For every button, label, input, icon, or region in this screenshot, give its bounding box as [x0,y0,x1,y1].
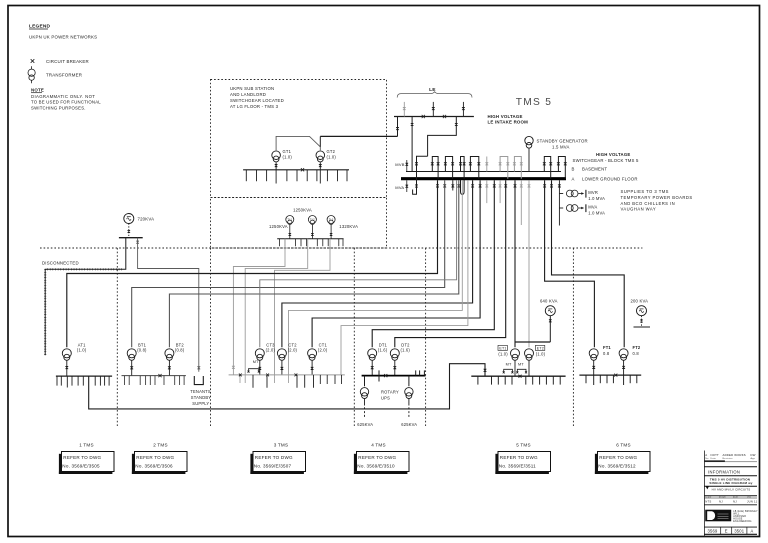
svg-text:TO BE USED FOR FUNCTIONAL: TO BE USED FOR FUNCTIONAL [31,100,101,105]
svg-text:4 TMS: 4 TMS [371,443,385,448]
svg-text:REFER TO DWG: REFER TO DWG [63,455,101,460]
svg-text:DIAGRAMMATIC ONLY. NOT: DIAGRAMMATIC ONLY. NOT [31,94,95,99]
breaker on bus 4 [384,374,387,377]
svg-text:AT LG FLOOR - TMS 3: AT LG FLOOR - TMS 3 [230,104,279,109]
LE stub 2 [432,102,435,117]
bus 3 TMS gray [229,375,345,388]
svg-text:MVA: MVA [588,205,597,210]
spare stub gray 500.1 [499,180,501,203]
label MT MT section5 [503,362,527,373]
LE stub 3 [462,102,465,117]
wire feeder to BT1 [132,180,445,347]
svg-text:TL1: TL1 [287,219,292,222]
transformer CT3 [255,343,275,361]
svg-text:A: A [751,528,754,533]
transformer ET2 [525,349,534,376]
svg-text:date: date [733,495,739,498]
zone divider 5/6 [572,248,574,428]
svg-text:(1.0): (1.0) [77,348,87,353]
wire gray feeder to CT3 [260,180,457,347]
spare stub gray 521.3 [520,180,522,225]
breaker loop 3 [459,157,466,179]
transformer FT1 [589,345,611,360]
wire feeder to DT1 [372,180,494,347]
svg-text:(1.6): (1.6) [401,348,411,353]
transformer BT2 [165,343,185,361]
breaker loop 6 [513,157,523,179]
wire tie bus1 to bus5 [89,364,487,409]
bus 6 TMS [579,375,641,385]
refer box 3 TMS [250,452,305,475]
svg-text:NOTE: NOTE [31,88,44,93]
generator 200KVA [631,298,651,327]
svg-text:drawn: drawn [719,495,727,498]
note supplies to 3 TMS [621,189,693,211]
svg-text:MT: MT [506,362,512,366]
svg-text:No. 3569/E/3511: No. 3569/E/3511 [499,464,536,469]
label ET2 [535,345,545,356]
label 1320KVA right [339,224,358,229]
breaker DT1 [371,361,374,376]
svg-text:SINGLE LINE DIAGRAM wy: SINGLE LINE DIAGRAM wy [709,481,752,485]
svg-text:1250KVA: 1250KVA [269,224,288,229]
bus 1250KVA [277,239,343,246]
breaker on bus 5 [519,375,522,378]
breakers TL1 TL2 TL3 [288,225,332,239]
transformer TL3 [327,216,335,225]
wire LE drop to board [428,117,458,157]
breaker on bus 2 [158,374,161,377]
title block information [704,467,757,476]
svg-text:FT1: FT1 [603,345,611,350]
breaker loop 5 [499,157,510,179]
LE stub 1 [403,102,406,117]
svg-text:1.5 MVA: 1.5 MVA [552,144,570,149]
svg-text:NOTT: NOTT [711,453,720,457]
svg-text:scale: scale [705,496,712,498]
svg-text:TEMPORARY POWER BOARDS: TEMPORARY POWER BOARDS [621,195,693,200]
svg-text:NJ: NJ [733,500,737,504]
wire feeder to ET1 [514,180,516,347]
svg-text:VAUGHAN WAY: VAUGHAN WAY [621,207,657,212]
title block logo [705,510,758,523]
wire MVR tap [559,180,563,225]
wire feeder to BT2 [169,180,458,347]
svg-text:DISCONNECTED: DISCONNECTED [42,260,79,265]
breaker loop 4 [469,157,480,179]
transformer MVR [566,190,605,201]
svg-text:No. 3569/E/3505: No. 3569/E/3505 [62,464,100,469]
svg-text:LE INTAKE ROOM: LE INTAKE ROOM [488,119,529,124]
svg-text:NJ: NJ [719,500,723,504]
refer box 5 TMS [495,452,550,475]
svg-text:625KVA: 625KVA [401,422,417,427]
svg-text:TL3: TL3 [329,219,334,222]
transformer CT1 [308,343,328,361]
spare stub 452.8 [452,180,454,190]
wire gen to tenants supply [136,238,200,372]
label HV LE intake room [488,114,529,125]
svg-text:(1.0): (1.0) [283,155,293,160]
svg-text:3501: 3501 [734,528,744,533]
svg-text:MVB: MVB [395,162,404,167]
breaker stub gray [485,157,488,172]
svg-text:(1.0): (1.0) [327,155,337,160]
loop3 lower pair [461,180,465,194]
svg-text:MVR: MVR [588,190,598,195]
svg-text:(1.6): (1.6) [378,348,388,353]
svg-text:ET2: ET2 [537,346,544,350]
breaker CT1 [311,361,314,375]
wire LE drop to bus B [411,117,414,172]
svg-text:SUPPLY: SUPPLY [192,401,209,406]
svg-text:FT2: FT2 [633,345,641,350]
label MVA [395,180,408,192]
svg-text:ROTARY: ROTARY [381,390,399,395]
UPS transformer right [405,376,413,418]
svg-text:MT: MT [518,362,524,366]
svg-text:1250KVA: 1250KVA [293,208,312,213]
transformer GT1 [272,149,293,162]
svg-text:REFER TO DWG: REFER TO DWG [358,455,396,460]
svg-text:A: A [572,176,575,181]
legend transformer symbol [28,66,82,83]
svg-text:(2.0): (2.0) [318,348,328,353]
bus 4 TMS [362,370,426,381]
svg-text:(2.0): (2.0) [266,348,276,353]
wire feeder to CT2 [282,180,473,347]
svg-text:TENANTS: TENANTS [190,389,211,394]
svg-text:CIRCUIT BREAKER: CIRCUIT BREAKER [46,59,89,64]
svg-text:AND LANDLORD: AND LANDLORD [230,92,266,97]
transformer DT2 [390,343,410,361]
svg-text:(0.8): (0.8) [137,348,147,353]
transformer TL2 [308,216,316,225]
transformer BT1 [127,343,147,361]
title block revision row [704,453,757,462]
svg-text:JUN 11: JUN 11 [747,500,758,504]
svg-text:ADDED WORKS: ADDED WORKS [723,453,746,457]
node LE label [429,87,436,93]
generator 640KVA [515,298,558,342]
bus LE intake [394,116,474,118]
svg-text:TRANSFORMER: TRANSFORMER [46,73,82,78]
breaker CT2 [280,361,283,375]
wire feeder to FT1 [545,180,595,347]
svg-text:UKPN UK POWER NETWORKS: UKPN UK POWER NETWORKS [29,35,97,40]
wire feeder to AT1 [67,180,438,347]
svg-text:ENGINEERING: ENGINEERING [733,521,751,523]
LE brace [397,92,472,98]
title block drawing title [704,478,757,492]
svg-text:REFER TO DWG: REFER TO DWG [500,455,538,460]
bus 2 TMS [122,376,186,385]
svg-text:App: App [751,457,756,460]
svg-text:1320KVA: 1320KVA [339,224,358,229]
wire feeder to ET2 gray [528,180,530,347]
breaker on bus 6 [614,374,617,377]
transformer DT1 [368,343,388,361]
label A lower ground floor [572,176,638,181]
svg-text:GT1: GT1 [283,149,292,154]
svg-text:TL2: TL2 [310,219,315,222]
svg-text:A: A [705,453,707,457]
feeder breakers below MVA [436,185,561,187]
svg-text:STANDBY GENERATOR: STANDBY GENERATOR [537,139,588,144]
node gen bar [119,237,143,239]
svg-text:SUPPLIES TO 3 TMS: SUPPLIES TO 3 TMS [621,189,669,194]
bus 1 TMS [56,376,112,387]
legend title [29,24,51,30]
svg-text:625KVA: 625KVA [357,422,373,427]
svg-text:(0.8): (0.8) [175,348,185,353]
generator standby 1.5MVA [525,136,588,149]
bus GT substation [243,170,349,184]
label rotary ups [381,390,399,401]
svg-text:(1.0): (1.0) [498,351,508,356]
svg-text:TMS 5: TMS 5 [516,97,553,108]
wire board left hook [413,156,428,194]
breaker loop 8 [557,157,567,179]
svg-text:No. 3569/E/3510: No. 3569/E/3510 [357,464,395,469]
zone divider 1/2 [116,248,118,428]
svg-text:3569: 3569 [708,528,718,533]
breaker FT1 [592,361,595,376]
svg-text:BASEMENT: BASEMENT [582,166,607,171]
svg-text:REFER TO DWG: REFER TO DWG [255,455,293,460]
svg-text:(1.0): (1.0) [536,351,546,356]
legend text UKPN [29,35,97,40]
transformer FT2 [619,345,641,360]
wire feeder to DT2 [395,180,506,347]
svg-text:No. 3569/E/3507: No. 3569/E/3507 [254,464,292,469]
wire feeder to CT1 [312,180,480,347]
svg-text:MVA: MVA [395,185,404,190]
svg-text:1 TMS: 1 TMS [79,443,93,448]
svg-text:3 TMS: 3 TMS [274,443,288,448]
zone divider 3/4 [353,248,355,428]
svg-text:AND BCO CHILLERS IN: AND BCO CHILLERS IN [621,201,676,206]
svg-text:SWITCHGEAR LOCATED: SWITCHGEAR LOCATED [230,98,284,103]
svg-text:6 TMS: 6 TMS [616,443,630,448]
svg-text:HV AND MV/LV CIRCUITS: HV AND MV/LV CIRCUITS [712,488,751,492]
label 1250KVA left [269,224,288,229]
svg-text:No. 3569/E/3512: No. 3569/E/3512 [598,464,636,469]
generator 720KVA [124,214,154,224]
svg-text:ET1: ET1 [499,346,506,350]
transformer AT1 [62,343,86,361]
svg-text:No: No [705,458,709,460]
svg-text:HIGH VOLTAGE: HIGH VOLTAGE [596,152,630,157]
label HV switchgear block TMS 5 [573,152,639,163]
refer box 2 TMS [132,452,187,475]
svg-text:SWITCHGEAR - BLOCK TMS 5: SWITCHGEAR - BLOCK TMS 5 [573,158,639,163]
wire gen to bar [127,224,130,238]
zone divider 2/3 [210,248,212,428]
svg-text:Date: Date [711,457,717,460]
title block scale row [704,495,757,504]
transformer CT2 [277,343,297,361]
svg-text:LOWER GROUND FLOOR: LOWER GROUND FLOOR [582,176,638,181]
spare stub gray 486.8 [486,180,488,203]
wire standby gen to bus [528,148,530,171]
refer box 6 TMS [595,452,650,475]
svg-text:2 TMS: 2 TMS [153,443,167,448]
svg-text:(2.0): (2.0) [288,348,298,353]
bus MVA thick [401,177,566,180]
svg-text:1.0 MVA: 1.0 MVA [588,196,605,201]
transformer ET1 [511,349,520,376]
zone dotted horizontal [40,247,642,249]
svg-text:640 KVA: 640 KVA [540,298,558,303]
svg-text:E: E [725,528,728,533]
refer box 4 TMS [354,452,409,475]
wire gray feeder to bus3 b [341,180,468,375]
label 1250KVA top [293,208,312,213]
svg-text:HIGH VOLTAGE: HIGH VOLTAGE [488,114,523,119]
breakers on bus 3 [239,374,297,377]
transformer GT2 [316,149,336,162]
title block number row [704,527,757,534]
svg-text:No. 3569/E/3506: No. 3569/E/3506 [135,464,173,469]
label ET1 [498,345,508,356]
breaker BT2 [168,361,171,376]
transformer TL1 [286,216,294,225]
dashed box 1250KVA transformers [211,198,387,249]
wire disconnected hatched [45,269,122,355]
wire TL feeder c [275,239,331,375]
breaker DT2 [393,361,396,376]
svg-text:1.0 MVA: 1.0 MVA [588,210,605,215]
breaker loop 7 [543,157,552,179]
breaker GT2 [319,162,322,170]
note UKPN substation [230,86,284,109]
svg-text:REFER TO DWG: REFER TO DWG [136,455,174,460]
svg-text:Revision: Revision [723,458,734,460]
breaker GT1 [275,162,278,170]
breaker BT1 [130,361,133,376]
zone divider 4/5 [425,248,427,428]
breaker on GT bus [301,168,304,171]
label MVB [395,160,408,172]
wire TL feeder a [233,239,285,375]
breaker CT3 [258,361,261,375]
title block frame [703,451,705,537]
breaker loop 1 [431,157,440,179]
label MT section3 [248,360,260,373]
svg-text:GT2: GT2 [327,149,336,154]
breaker AT1 [65,361,68,377]
svg-text:chk: chk [747,496,752,498]
bus 5 TMS [471,376,565,384]
wire GT feeder [276,136,397,150]
wire LE to GT [396,117,399,137]
breaker FT2 [622,361,625,376]
label B basement [572,166,608,171]
refer box 1 TMS [59,452,114,475]
svg-text:UKPN SUB STATION: UKPN SUB STATION [230,86,274,91]
svg-text:REFER TO DWG: REFER TO DWG [599,455,637,460]
legend circuit breaker symbol [31,59,89,64]
svg-text:LEGEND: LEGEND [29,24,51,30]
wire gray feeder to bus3 a [289,180,463,375]
UPS transformer left [360,376,368,418]
svg-text:STANDBY: STANDBY [191,395,212,400]
wire TL feeder b [245,239,308,375]
svg-text:SWITCHING PURPOSES.: SWITCHING PURPOSES. [31,105,86,110]
dashed box UKPN substation [211,80,387,198]
breaker loop 2 [444,157,454,179]
breakers on LE bus [422,115,446,118]
svg-text:NTS: NTS [705,500,711,504]
svg-text:MT: MT [253,360,259,364]
breaker TL gray [232,366,235,368]
tenants standby supply stub [190,376,211,406]
svg-text:DW: DW [751,453,756,457]
svg-text:INFORMATION: INFORMATION [708,470,740,475]
bus MVB thin [406,171,561,173]
svg-text:200 KVA: 200 KVA [631,298,649,303]
svg-text:UPS: UPS [381,395,390,400]
svg-text:B: B [572,166,575,171]
svg-text:0.8: 0.8 [633,351,640,356]
legend note [31,88,101,111]
wire feeder to FT2 [552,180,625,347]
svg-text:5 TMS: 5 TMS [516,443,530,448]
transformer MVA tap2 [559,204,605,215]
wire gen bar left leg [122,238,126,270]
svg-text:720KVA: 720KVA [138,217,155,222]
svg-text:0.8: 0.8 [603,351,610,356]
